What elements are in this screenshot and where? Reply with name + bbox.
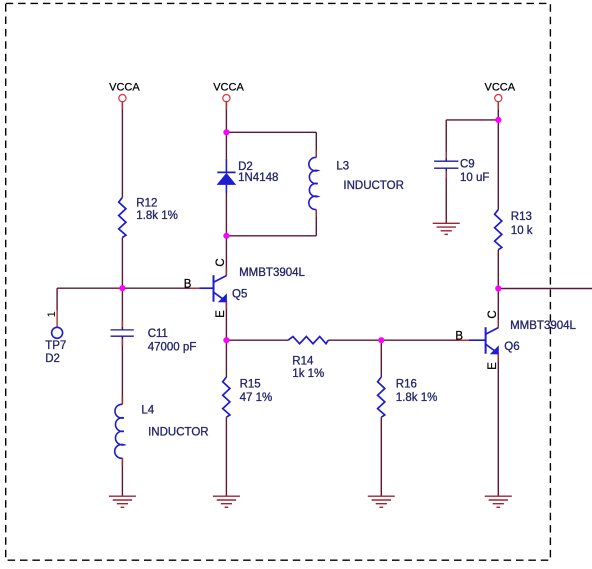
diode D2: [217, 159, 279, 193]
resistor R16: [378, 377, 438, 417]
pin lead VCCA left: [121, 102, 123, 110]
capacitor C9: [434, 152, 489, 184]
inductor L4: [115, 397, 209, 466]
power symbol VCCA (right): [485, 82, 516, 102]
svg-text:C11: C11: [148, 328, 168, 340]
svg-text:1N4148: 1N4148: [238, 172, 278, 184]
svg-text:Q6: Q6: [504, 341, 519, 353]
wire R16 node to Q6 base: [381, 339, 485, 341]
wire R15 drop: [225, 340, 227, 377]
wire right rail VCCA to C9 node: [497, 102, 499, 120]
resistor R12: [119, 197, 178, 237]
wire collector node to Q6: [497, 289, 499, 328]
junction node (emitter net left): [223, 337, 229, 343]
svg-text:R15: R15: [240, 379, 261, 391]
wire C9 top drop: [445, 120, 447, 161]
wire top link to L3: [226, 131, 316, 133]
test point TP7: [45, 311, 66, 365]
transistor Q6: [455, 310, 576, 369]
ground (Q6 emitter): [485, 496, 512, 507]
wire collector node to right edge: [498, 288, 592, 290]
pin lead VCCA middle: [225, 102, 227, 110]
svg-text:Q5: Q5: [232, 289, 247, 301]
wire left rail VCCA to R12: [121, 102, 123, 198]
power symbol VCCA (middle): [213, 82, 244, 102]
svg-text:VCCA: VCCA: [109, 82, 140, 94]
svg-text:D2: D2: [45, 353, 60, 365]
svg-text:10 k: 10 k: [511, 225, 533, 237]
svg-text:1k 1%: 1k 1%: [292, 368, 324, 380]
svg-text:C: C: [215, 258, 227, 266]
wire Q6 emitter to ground: [497, 354, 499, 497]
resistor R14: [288, 337, 328, 381]
wire middle rail VCCA to node: [225, 102, 227, 159]
svg-text:B: B: [184, 279, 192, 291]
svg-text:47000 pF: 47000 pF: [148, 342, 197, 354]
wire L3 top drop: [315, 132, 317, 157]
wire R13 to collector node: [497, 250, 499, 289]
svg-text:1.8k 1%: 1.8k 1%: [396, 392, 438, 404]
svg-text:L3: L3: [336, 160, 349, 172]
junction node (C9 net): [495, 117, 501, 123]
wire R16 drop: [380, 340, 382, 377]
ground (R16): [368, 496, 395, 507]
ground (L4): [109, 496, 136, 507]
capacitor C11: [111, 321, 197, 354]
wire C9 node to R13: [497, 120, 499, 210]
svg-text:R14: R14: [292, 356, 314, 368]
wire emitter node to R14: [226, 339, 288, 341]
pin lead VCCA right: [497, 102, 499, 110]
resistor R13: [495, 210, 533, 250]
svg-text:VCCA: VCCA: [485, 82, 516, 94]
svg-text:R12: R12: [136, 197, 157, 209]
ground (C9): [433, 223, 460, 234]
svg-text:C: C: [487, 310, 499, 318]
svg-text:L4: L4: [141, 405, 154, 417]
svg-text:VCCA: VCCA: [213, 82, 244, 94]
wire L3 bottom drop: [315, 210, 317, 236]
svg-text:INDUCTOR: INDUCTOR: [148, 426, 208, 438]
wire C9 link: [446, 119, 498, 121]
svg-text:1: 1: [46, 311, 58, 317]
wire L4 to ground: [121, 458, 123, 496]
wire R16 to ground: [380, 417, 382, 496]
svg-text:47 1%: 47 1%: [240, 392, 273, 404]
wire base net TP7 to Q5 base: [57, 287, 213, 289]
pin 1 lead TP7: [56, 310, 58, 327]
wire bottom link L3 to diode node: [226, 235, 316, 237]
wire C11 to L4: [121, 337, 123, 404]
inductor L3: [309, 150, 404, 217]
wire R14 to R16 node: [328, 339, 381, 341]
wire C9 to ground: [445, 168, 447, 223]
junction node (diode bottom): [223, 233, 229, 239]
transistor Q5: [184, 258, 306, 317]
svg-text:B: B: [455, 331, 463, 343]
junction node (emitter net right): [378, 337, 384, 343]
wire TP7 drop: [56, 288, 58, 310]
wire diode to Q5 collector: [225, 193, 227, 276]
svg-text:10 uF: 10 uF: [460, 172, 489, 184]
svg-text:MMBT3904L: MMBT3904L: [510, 320, 576, 332]
svg-text:TP7: TP7: [45, 340, 66, 352]
junction node (Q6 collector): [495, 285, 501, 291]
svg-text:R16: R16: [396, 379, 417, 391]
power symbol VCCA (left): [109, 82, 140, 102]
svg-text:1.8k 1%: 1.8k 1%: [136, 210, 178, 222]
ground (R15): [213, 496, 240, 507]
wire R12 to C11: [121, 238, 123, 330]
svg-text:C9: C9: [460, 159, 475, 171]
svg-text:E: E: [215, 310, 227, 318]
svg-text:R13: R13: [511, 211, 532, 223]
wire R15 to ground: [225, 417, 227, 496]
svg-text:D2: D2: [238, 161, 253, 173]
svg-text:INDUCTOR: INDUCTOR: [343, 180, 403, 192]
svg-text:E: E: [487, 362, 499, 370]
junction node (base net): [119, 285, 125, 291]
junction node (middle rail top): [223, 129, 229, 135]
resistor R15: [223, 377, 273, 417]
svg-text:MMBT3904L: MMBT3904L: [239, 267, 305, 279]
wire Q5 emitter drop: [225, 301, 227, 340]
